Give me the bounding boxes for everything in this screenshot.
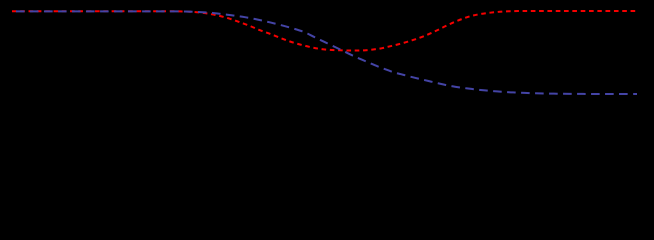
blue dashed curve (descending sigmoid) [12, 11, 637, 94]
red dotted curve (dip and recovery) [12, 11, 636, 51]
chart: two dashed curves on black background [0, 0, 654, 103]
